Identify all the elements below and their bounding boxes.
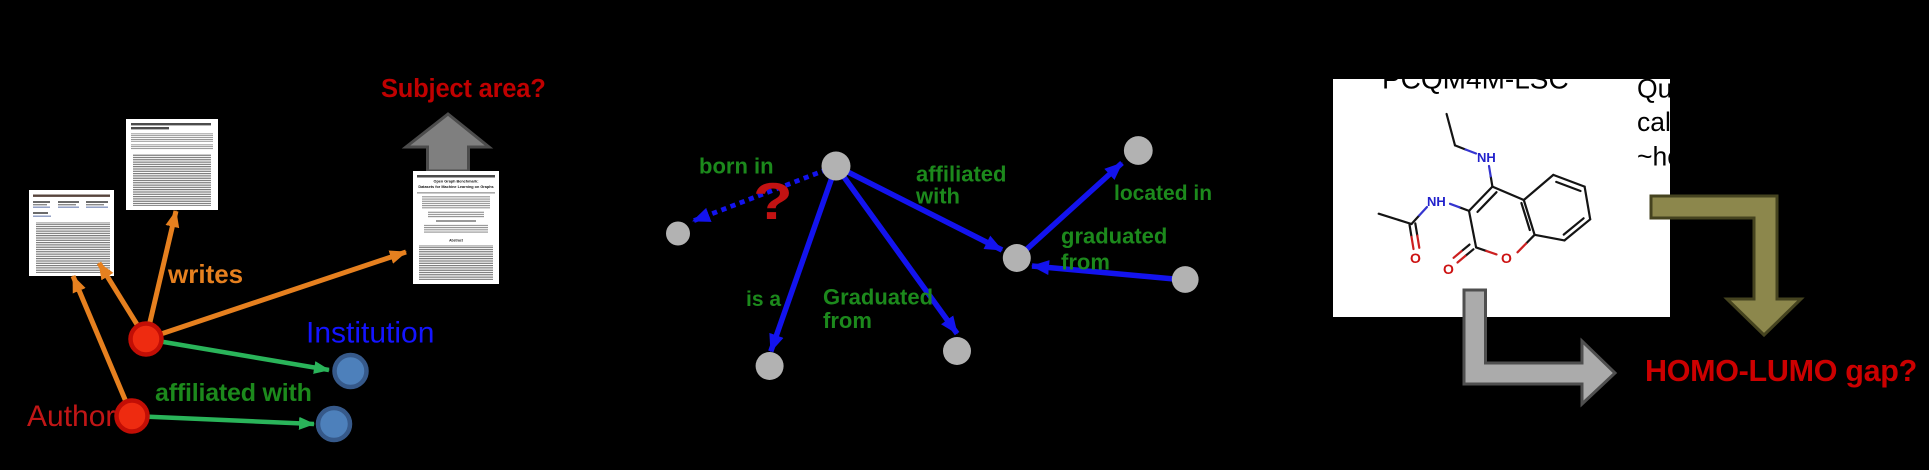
svg-text:is a: is a <box>746 288 781 311</box>
svg-text:O: O <box>1410 250 1421 266</box>
svg-text:O: O <box>1501 250 1512 266</box>
svg-text:located in: located in <box>1114 182 1212 205</box>
svg-text:from: from <box>1061 250 1110 275</box>
svg-text:NH: NH <box>1477 150 1496 165</box>
svg-text:?: ? <box>753 173 793 230</box>
svg-text:NH: NH <box>1427 194 1446 209</box>
svg-text:with: with <box>915 184 960 209</box>
svg-text:Graduated: Graduated <box>823 285 933 310</box>
svg-text:writes: writes <box>167 259 243 289</box>
svg-text:O: O <box>1443 261 1454 277</box>
svg-text:calculation takes: calculation takes <box>1637 107 1833 137</box>
svg-text:Quantum chemistry: Quantum chemistry <box>1637 74 1867 104</box>
svg-text:Institution: Institution <box>306 317 434 350</box>
svg-text:Subject area?: Subject area? <box>381 75 546 103</box>
svg-text:graduated: graduated <box>1061 224 1167 249</box>
svg-text:PCQM4M-LSC: PCQM4M-LSC <box>1382 64 1569 95</box>
svg-text:~hours: ~hours <box>1637 142 1719 172</box>
svg-text:from: from <box>823 308 872 333</box>
svg-text:affiliated with: affiliated with <box>155 379 312 407</box>
svg-text:HOMO-LUMO gap?: HOMO-LUMO gap? <box>1645 354 1917 388</box>
svg-text:Open Graph Benchmark:: Open Graph Benchmark: <box>434 180 479 184</box>
svg-text:Abstract: Abstract <box>449 239 464 243</box>
svg-text:Author: Author <box>27 400 115 433</box>
svg-text:Datasets for Machine Learning: Datasets for Machine Learning on Graphs <box>418 185 493 189</box>
